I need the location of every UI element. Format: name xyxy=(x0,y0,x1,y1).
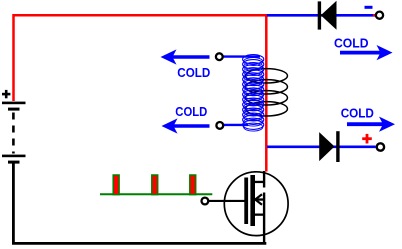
wire: top output lead (blue) from drain corner to diode and terminal xyxy=(267,14,375,17)
COLD arrow top-right (pointing right) xyxy=(340,45,393,60)
transformer T1 secondary winding (blue coil) xyxy=(243,55,264,130)
wire: black negative rail from battery - down and across bottom to MOSFET source xyxy=(13,162,266,243)
wire: bottom output lead (blue) from red rail to diode and terminal xyxy=(267,146,376,149)
red tick at negative terminal xyxy=(373,14,376,17)
battery B1 xyxy=(2,102,26,164)
pulse 1 xyxy=(113,175,119,195)
transformer T1 secondary winding inner scribble xyxy=(244,58,263,132)
transformer T1 primary winding (black coil) xyxy=(246,69,288,116)
secondary top terminal (open circle) xyxy=(216,53,223,60)
MOSFET Q1 xyxy=(224,171,288,243)
negative output terminal (open circle) xyxy=(376,12,383,19)
wire: red vertical drop from top rail to MOSFET drain xyxy=(265,14,268,172)
diode D1 (cathode bar left, pointing left) xyxy=(318,1,337,30)
secondary bottom terminal (open circle) xyxy=(216,122,223,129)
svg-text:COLD: COLD xyxy=(177,65,210,80)
wire: red positive rail from battery + up and across top to drain corner xyxy=(14,15,267,101)
svg-text:COLD: COLD xyxy=(175,104,207,119)
wire: secondary top lead (blue) xyxy=(224,55,261,57)
label: minus sign xyxy=(365,6,373,9)
pulse 3 xyxy=(190,175,196,195)
wire: secondary bottom lead (blue) xyxy=(224,124,248,126)
battery B1 plus label xyxy=(2,90,10,98)
COLD arrow bottom-right (pointing right) xyxy=(347,117,395,132)
pulse train baseline (gate drive signal) xyxy=(100,193,212,195)
COLD arrow bottom-left (pointing left) xyxy=(162,118,210,133)
svg-text:COLD: COLD xyxy=(341,106,374,121)
diode D2 (pointing right, cathode bar right) xyxy=(319,131,339,162)
wire: gate lead to MOSFET xyxy=(209,200,246,202)
COLD arrow top-left (pointing left) xyxy=(161,49,210,64)
positive output terminal (open circle) xyxy=(377,143,384,150)
pulse 2 xyxy=(152,175,158,195)
label: plus sign (red) xyxy=(362,134,372,144)
svg-text:COLD: COLD xyxy=(334,36,369,51)
gate input terminal (open circle) xyxy=(202,198,209,205)
